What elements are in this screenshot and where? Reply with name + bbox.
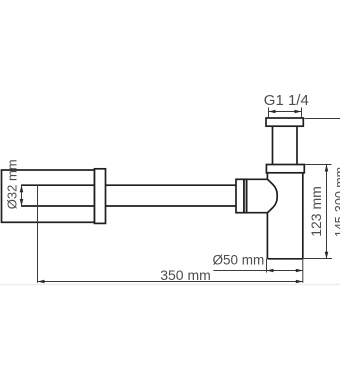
elbow body xyxy=(247,179,268,212)
dimension line G1 1/4 xyxy=(269,111,302,113)
elbow rounded nose (bulge into bottle) xyxy=(267,179,277,212)
arrow Ø50 left xyxy=(267,269,274,273)
arrow 350 right xyxy=(296,280,303,284)
vertical outlet pipe xyxy=(272,126,274,164)
arrow 350 left xyxy=(38,280,45,284)
arrow Ø32 up xyxy=(20,185,24,192)
dimension line 123 mm xyxy=(326,165,328,259)
svg-text:123 mm: 123 mm xyxy=(308,186,324,237)
arrow G1 left xyxy=(269,110,276,114)
bottle body right edge xyxy=(302,173,304,259)
svg-text:145-300 mm: 145-300 mm xyxy=(333,167,340,237)
svg-text:G1 1/4: G1 1/4 xyxy=(264,92,309,109)
extension lines for G1 1/4 dimension xyxy=(268,108,270,118)
bottle bottom edge with 123 mm extension to the right xyxy=(267,258,302,260)
threaded connector flange G1 1/4 xyxy=(266,118,303,126)
arrow G1 right xyxy=(295,110,302,114)
dimension line Ø50 with left extension under label xyxy=(213,270,302,272)
dimension extension line for 350 mm (left, crossing tube) xyxy=(37,185,39,283)
extension lines below bottle for Ø50 xyxy=(266,259,268,273)
arrow 123 up xyxy=(325,165,329,172)
extension line at bottle flange top for 123 mm xyxy=(305,164,332,166)
svg-text:Ø32 mm: Ø32 mm xyxy=(5,159,20,209)
arrow 123 down xyxy=(325,252,329,259)
bottle body left edge upper segment xyxy=(266,173,268,180)
dimension line Ø32 xyxy=(21,185,23,206)
wall tube (decorative escutcheon tube) xyxy=(2,170,95,222)
wall tube flange ring xyxy=(95,169,106,224)
svg-text:350 mm: 350 mm xyxy=(160,267,211,283)
dimension line 350 mm xyxy=(38,281,303,283)
svg-text:Ø50 mm: Ø50 mm xyxy=(213,253,265,268)
faint separator line xyxy=(0,284,340,286)
arrow Ø50 right xyxy=(296,269,303,273)
compression nut at elbow xyxy=(236,179,244,212)
bottle body left edge lower segment xyxy=(266,213,268,259)
inlet pipe bottom edge xyxy=(21,205,236,207)
bottle top flange xyxy=(266,165,304,173)
nut inner ring xyxy=(244,179,247,212)
extension line at connector top for 145-300 mm xyxy=(305,118,340,120)
arrow Ø32 down xyxy=(20,199,24,206)
inlet pipe top edge xyxy=(21,184,236,186)
